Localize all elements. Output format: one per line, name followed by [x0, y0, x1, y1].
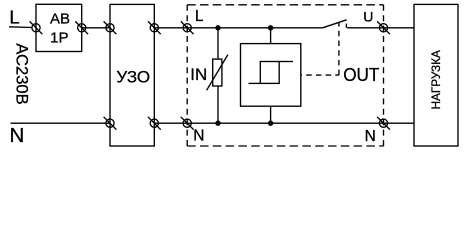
junction (varistor top) — [215, 25, 220, 30]
svg-text:1Р: 1Р — [50, 30, 68, 47]
wire RCD to protector (phase) — [154, 27, 322, 29]
svg-text:НАГРУЗКА: НАГРУЗКА — [429, 50, 443, 110]
wire relay upper lead — [270, 28, 272, 44]
wire N lead — [11, 122, 111, 124]
terminal (protector input, phase) — [181, 21, 194, 34]
svg-text:L: L — [9, 6, 19, 27]
svg-text:OUT: OUT — [343, 65, 379, 85]
RCD УЗО — [110, 4, 154, 146]
load НАГРУЗКА — [414, 4, 458, 146]
junction (varistor bottom) — [215, 121, 220, 126]
wire L lead — [9, 26, 32, 29]
wire relay lower lead — [270, 106, 272, 123]
terminal (breaker output, phase) — [75, 21, 88, 34]
svg-text:U: U — [363, 9, 373, 25]
svg-text:N: N — [10, 124, 25, 147]
wire varistor upper lead — [217, 28, 219, 59]
wire switch to output terminal — [347, 27, 414, 29]
terminal (breaker input, phase) — [30, 21, 43, 34]
junction (relay top) — [268, 25, 273, 30]
switch contact (relay output) — [323, 20, 347, 28]
wire RCD to protector (neutral) — [154, 122, 414, 124]
control line OUT (dashed) — [301, 23, 339, 75]
svg-text:IN: IN — [190, 65, 207, 84]
terminal (RCD output, phase) — [148, 21, 161, 34]
voltage protector enclosure (dashed) — [187, 5, 383, 146]
svg-text:АВ: АВ — [50, 11, 70, 28]
junction (relay bottom) — [268, 121, 273, 126]
wire breaker to RCD — [82, 27, 110, 29]
circuit breaker AB 1P — [36, 4, 82, 51]
svg-text:УЗО: УЗО — [116, 68, 150, 87]
svg-text:N: N — [193, 127, 204, 144]
varistor RU1 (measuring input) — [207, 55, 228, 91]
label АВ 1Р — [50, 11, 70, 47]
terminal (protector output, neutral) — [377, 117, 390, 130]
terminal (RCD output, neutral) — [148, 117, 161, 130]
terminal (protector input, neutral) — [181, 117, 194, 130]
terminal (protector output, phase) — [377, 21, 390, 34]
wire varistor lower lead — [217, 86, 219, 123]
relay K1 (voltage monitor with hysteresis) — [241, 44, 301, 107]
svg-text:АС230В: АС230В — [12, 43, 31, 104]
terminal (RCD input, neutral) — [104, 117, 117, 130]
terminal (RCD input, phase) — [104, 21, 117, 34]
svg-text:N: N — [365, 128, 376, 145]
svg-text:L: L — [195, 8, 204, 25]
